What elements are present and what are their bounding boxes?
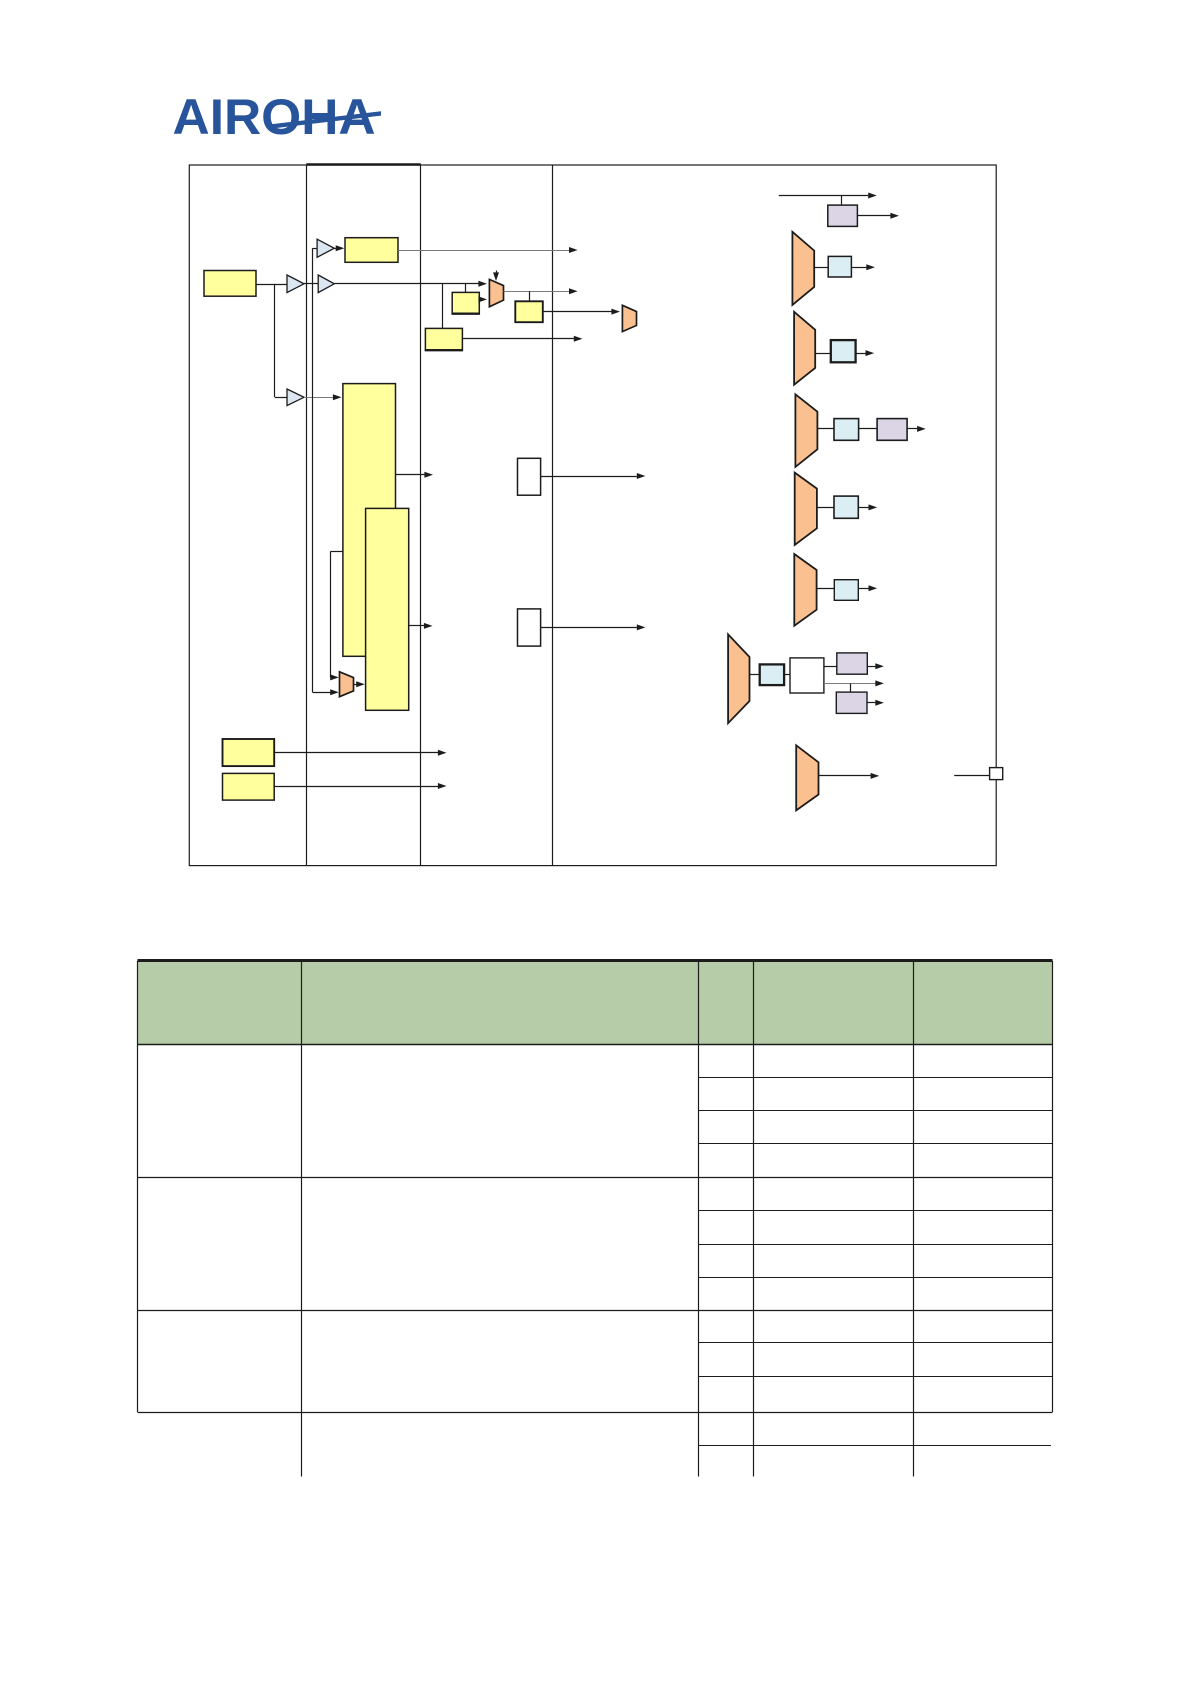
wire vertical net 26M riser bbox=[312, 248, 314, 692]
lane divider 1 bbox=[306, 165, 308, 866]
table sub row line group2 bbox=[698, 1244, 1053, 1246]
wire feedback L from PLL A bbox=[330, 551, 343, 553]
mux X4 bbox=[795, 473, 817, 545]
wire D4 output bbox=[858, 507, 868, 509]
table col divider 1 bbox=[301, 961, 303, 1477]
Airoha logo swoosh bbox=[268, 111, 381, 129]
mux X2 bbox=[794, 312, 815, 385]
PLL box T bbox=[345, 238, 398, 263]
wire P6b output bbox=[867, 702, 875, 704]
table sub row line group1 bbox=[698, 1110, 1053, 1112]
wire X2 to D2 bbox=[815, 353, 831, 355]
oscillator box XO bbox=[204, 271, 256, 297]
mux M1 select arrow bbox=[496, 271, 498, 275]
wire drop to register P0 bbox=[841, 196, 843, 206]
wire M3 output bbox=[354, 684, 358, 686]
buffer B1 bbox=[287, 275, 304, 293]
wire main 26M trunk bbox=[334, 283, 479, 285]
wire W1 output bbox=[541, 476, 637, 478]
wire C output bbox=[274, 752, 438, 754]
wire D2 output bbox=[856, 353, 866, 355]
wire X4 to D4 bbox=[817, 507, 834, 509]
divider box D2 bbox=[831, 340, 856, 362]
mux M3 bbox=[340, 672, 354, 697]
divider box W2 bbox=[518, 609, 541, 646]
buffer B3 bbox=[317, 239, 334, 257]
table sub row line group3 bbox=[698, 1342, 1053, 1344]
wire D5 output bbox=[858, 588, 868, 590]
wire top output row bbox=[779, 195, 869, 197]
register box P3 bbox=[877, 419, 907, 441]
wire D1 output bbox=[851, 267, 866, 269]
wire X3 to D3 bbox=[817, 428, 834, 430]
wire S3 output bbox=[462, 338, 574, 340]
divider box S1 bbox=[452, 292, 479, 314]
table header bottom border bbox=[138, 1044, 1053, 1046]
table sub row line group1 bbox=[698, 1143, 1053, 1145]
mux X5 bbox=[794, 554, 816, 626]
wire D output bbox=[274, 786, 438, 788]
mux X3 bbox=[795, 394, 817, 467]
mux X6 bbox=[728, 634, 749, 723]
table top thick border bbox=[138, 959, 1053, 962]
wire X6 to D6 bbox=[750, 674, 760, 676]
divider box S2 bbox=[515, 301, 543, 322]
wire X5 to D5 bbox=[817, 588, 835, 590]
mux M1 bbox=[489, 279, 503, 306]
divider box D6 bbox=[760, 664, 784, 685]
register box P6a bbox=[837, 653, 868, 674]
lane divider 2 bbox=[420, 165, 422, 866]
wire drop to divider S3 bbox=[442, 284, 444, 329]
table sub row line group1 bbox=[698, 1077, 1053, 1079]
divider box D3 bbox=[834, 419, 859, 441]
table sub row line group2 bbox=[698, 1277, 1053, 1279]
wire PLL A output bbox=[396, 474, 425, 476]
wire M1 output drop to S2 bbox=[529, 291, 531, 301]
source box C bbox=[223, 739, 275, 766]
table col divider 3 bbox=[753, 961, 755, 1477]
PLL box B bbox=[366, 508, 409, 710]
buffer B2 bbox=[287, 389, 304, 406]
table group divider row11 bbox=[138, 1412, 1053, 1414]
wire S1 to mux M1 bbox=[478, 299, 481, 301]
divider box S3 bbox=[425, 328, 462, 350]
wire S2 output bbox=[543, 311, 612, 313]
wire P3 output bbox=[907, 428, 917, 430]
wire junction drop to buffer B2 bbox=[274, 284, 276, 397]
mux X1 bbox=[792, 232, 814, 305]
wire WB middle output bbox=[824, 683, 876, 685]
wire riser to mux M3 input 2 bbox=[313, 692, 331, 694]
wire riser to B3 bbox=[313, 248, 318, 250]
table sub row line group3 bbox=[698, 1376, 1053, 1378]
wire PLL B output bbox=[409, 625, 424, 627]
wire stub to port square bbox=[954, 775, 989, 777]
register box P6b bbox=[836, 692, 867, 713]
wire PLL T long output bbox=[398, 250, 569, 252]
wire drop to P6b bbox=[850, 683, 852, 692]
PLL box A bbox=[343, 384, 396, 657]
register box P0 bbox=[828, 205, 858, 226]
wire X7 output bbox=[819, 775, 871, 777]
wire XO output bbox=[256, 284, 287, 286]
source box D bbox=[223, 773, 275, 800]
divider box D1 bbox=[828, 256, 851, 277]
mux X7 bbox=[796, 745, 818, 810]
wire B2 output to PLL A bbox=[304, 397, 333, 399]
divider box D4 bbox=[834, 496, 858, 518]
wire WB to P6a bbox=[824, 666, 837, 668]
table sub row line group4 bbox=[698, 1445, 1051, 1447]
buffer B4 bbox=[318, 275, 334, 293]
wire B3 to PLL T bbox=[334, 248, 337, 250]
wire P0 output bbox=[857, 215, 890, 217]
mux M2 bbox=[622, 305, 636, 331]
wire drop to divider S1 bbox=[465, 284, 467, 293]
table col divider 2 bbox=[698, 961, 700, 1477]
table sub row line group2 bbox=[698, 1210, 1053, 1212]
table group divider row4 bbox=[138, 1177, 1053, 1179]
table col divider 4 bbox=[913, 961, 915, 1477]
wire M1 output bbox=[504, 291, 570, 293]
wire W2 output bbox=[541, 627, 637, 629]
lane 2 thick top border bbox=[306, 163, 421, 166]
table left border bbox=[137, 961, 139, 1412]
wire D6 to WB bbox=[784, 674, 790, 676]
table header fill bbox=[138, 961, 1053, 1045]
divider box W1 bbox=[518, 458, 541, 495]
divider box D5 bbox=[834, 580, 858, 601]
table right border bbox=[1052, 961, 1054, 1412]
table group divider row8 bbox=[138, 1310, 1053, 1312]
block box WB bbox=[790, 658, 824, 693]
diagram outer frame bbox=[189, 165, 996, 866]
wire X1 to D1 bbox=[814, 267, 828, 269]
lane divider 3 bbox=[552, 165, 554, 866]
wire B1 to B4 bbox=[304, 283, 318, 285]
port square bbox=[990, 768, 1003, 780]
wire P6a output bbox=[867, 666, 875, 668]
wire D3 to P3 bbox=[859, 428, 878, 430]
